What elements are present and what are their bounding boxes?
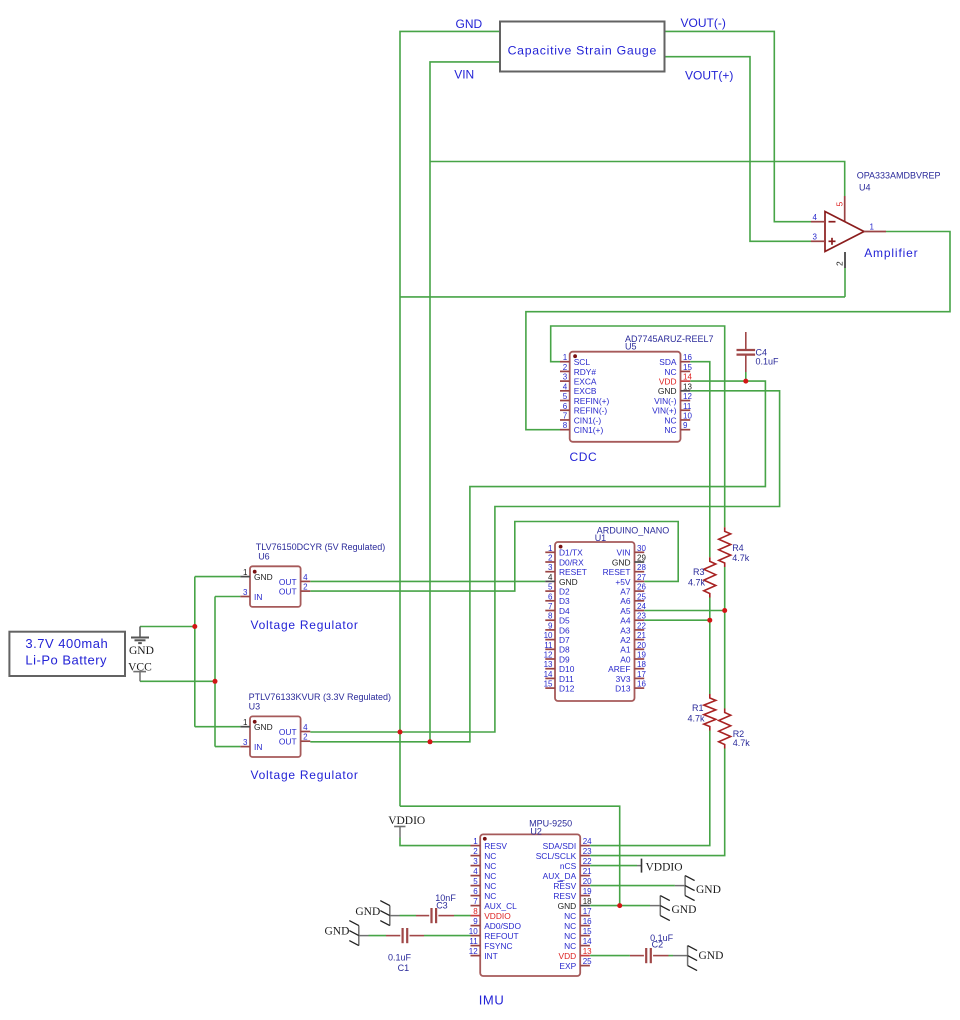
IMU U2 pin 2 NC [471, 855, 481, 857]
svg-text:0.1uF: 0.1uF [756, 356, 780, 366]
svg-text:IMU: IMU [479, 992, 505, 1007]
Arduino U1 pin 12 D9 [545, 658, 555, 660]
svg-text:U6: U6 [258, 551, 270, 561]
svg-text:16: 16 [683, 353, 692, 362]
svg-text:15: 15 [583, 927, 592, 936]
svg-text:U2: U2 [530, 827, 542, 837]
wire SCL to IMU pin23 [590, 749, 725, 856]
wire battery GND rail [140, 626, 195, 628]
CDC U5 pin 12 VIN(-) [681, 400, 691, 402]
svg-text:10: 10 [469, 927, 478, 936]
op-amp plus input marker [829, 240, 836, 242]
svg-text:4: 4 [548, 573, 553, 582]
capacitor C1 leads [386, 935, 400, 937]
Arduino U1 pin 8 D5 [545, 619, 555, 621]
junction U3.OUT4 column [398, 730, 403, 735]
svg-text:15: 15 [683, 363, 692, 372]
svg-text:U4: U4 [859, 182, 871, 192]
svg-text:VIN: VIN [454, 67, 474, 81]
Arduino U1 pin 30 VIN [635, 551, 645, 553]
wire GND from CDC pin13 [310, 391, 779, 732]
svg-text:9: 9 [473, 917, 478, 926]
svg-text:12: 12 [469, 947, 478, 956]
svg-text:4: 4 [303, 573, 308, 582]
svg-text:30: 30 [637, 544, 646, 553]
svg-text:16: 16 [637, 680, 646, 689]
svg-text:27: 27 [637, 573, 646, 582]
svg-text:7: 7 [563, 411, 568, 420]
svg-text:C1: C1 [398, 963, 410, 973]
capacitive strain gauge box [500, 22, 665, 72]
svg-text:11: 11 [544, 641, 553, 650]
svg-text:4: 4 [473, 867, 478, 876]
wire GND gauge-left [400, 31, 500, 806]
svg-text:D11: D11 [559, 674, 574, 684]
svg-text:GND: GND [355, 906, 380, 918]
svg-text:13: 13 [683, 382, 692, 391]
svg-text:EXCB: EXCB [574, 386, 597, 396]
Arduino U1 pin 11 D8 [545, 648, 555, 650]
svg-text:19: 19 [583, 887, 592, 896]
svg-text:9: 9 [548, 621, 553, 630]
ground symbol C2 [687, 946, 689, 966]
svg-text:A3: A3 [620, 625, 631, 635]
svg-text:C2: C2 [652, 940, 664, 950]
Arduino U1 pin 10 D7 [545, 639, 555, 641]
CDC U5 pin 11 VIN(+) [681, 409, 691, 411]
svg-text:RESV: RESV [553, 891, 576, 901]
capacitor C4 leads [745, 332, 747, 350]
svg-text:1: 1 [563, 353, 568, 362]
svg-text:RDY#: RDY# [574, 367, 597, 377]
resistor R2 [719, 709, 731, 749]
svg-text:11: 11 [683, 402, 692, 411]
resistor R1 [704, 694, 716, 731]
svg-text:15: 15 [544, 680, 553, 689]
Arduino pin1 indicator dot [559, 545, 563, 549]
svg-text:D9: D9 [559, 654, 570, 664]
svg-text:REFIN(-): REFIN(-) [574, 406, 608, 416]
wire A5/SCL [644, 610, 725, 612]
Arduino U1 pin 28 RESET [635, 571, 645, 573]
svg-text:AREF: AREF [608, 664, 630, 674]
svg-text:17: 17 [583, 907, 592, 916]
svg-text:GND: GND [254, 722, 273, 732]
svg-text:12: 12 [544, 651, 553, 660]
svg-text:3.7V 400mah: 3.7V 400mah [25, 636, 108, 651]
svg-text:D12: D12 [559, 684, 575, 694]
U3 pin 1 GND [240, 726, 250, 728]
svg-text:U5: U5 [625, 341, 637, 351]
Arduino U1 pin 14 D11 [545, 677, 555, 679]
svg-text:2: 2 [473, 847, 478, 856]
svg-text:GND: GND [696, 884, 721, 896]
svg-text:18: 18 [583, 897, 592, 906]
wire IMU pin20 RESV to GND [590, 885, 675, 887]
IMU U2 pin 16 NC [580, 925, 590, 927]
svg-text:7: 7 [473, 897, 478, 906]
svg-text:CIN1(+): CIN1(+) [574, 425, 604, 435]
svg-text:6: 6 [548, 592, 553, 601]
IMU U2 pin 19 RESV [580, 895, 590, 897]
svg-text:IN: IN [254, 742, 262, 752]
svg-text:NC: NC [484, 871, 496, 881]
svg-text:24: 24 [583, 837, 592, 846]
wire battery VCC rail [140, 680, 215, 682]
Arduino U1 pin 25 A6 [635, 600, 645, 602]
capacitor C2 leads [630, 955, 644, 957]
svg-text:SCL: SCL [574, 357, 591, 367]
svg-text:D4: D4 [559, 606, 570, 616]
capacitor C3 leads [416, 915, 429, 917]
Arduino U1 pin 16 D13 [635, 687, 645, 689]
svg-text:GND: GND [658, 386, 677, 396]
svg-text:10: 10 [683, 411, 692, 420]
svg-text:R4: R4 [732, 543, 744, 553]
Arduino U1 pin 23 A4 [635, 619, 645, 621]
IMU U2 pin 22 nCS [580, 865, 590, 867]
capacitor C3 [430, 908, 432, 923]
CDC pin1 indicator dot [573, 354, 577, 358]
op-amp pin3 stub [811, 240, 825, 242]
svg-text:AD7745ARUZ-REEL7: AD7745ARUZ-REEL7 [625, 334, 714, 344]
wire VOUT(-) to op-amp pin4 [665, 31, 812, 221]
svg-text:AUX_CL: AUX_CL [484, 901, 517, 911]
svg-text:1: 1 [548, 544, 553, 553]
svg-text:2: 2 [303, 583, 308, 592]
Arduino U1 pin 4 GND [545, 580, 555, 582]
wire U6.OUT4 to Arduino pin4 GND [310, 580, 545, 582]
junction A5/SCL [722, 608, 727, 613]
svg-text:RESV: RESV [553, 881, 576, 891]
ground symbol pin18 [659, 896, 661, 916]
svg-text:1: 1 [243, 718, 248, 727]
voltage regulator U6 box [250, 566, 301, 607]
CDC U5 pin 14 VDD [681, 380, 691, 382]
svg-text:VOUT(-): VOUT(-) [681, 16, 726, 30]
U3 pin 3 IN [240, 746, 250, 748]
IMU U2 pin 23 SCL/SCLK [580, 855, 590, 857]
svg-text:NC: NC [484, 851, 496, 861]
svg-text:3: 3 [243, 738, 248, 747]
svg-text:13: 13 [583, 947, 592, 956]
svg-text:D0/RX: D0/RX [559, 557, 584, 567]
svg-text:4: 4 [813, 213, 818, 222]
Arduino U1 pin 26 A7 [635, 590, 645, 592]
junction battery VCC [213, 679, 218, 684]
IMU U2 pin 5 NC [471, 885, 481, 887]
Arduino U1 pin 3 RESET [545, 571, 555, 573]
svg-text:8: 8 [548, 612, 553, 621]
svg-text:R3: R3 [693, 567, 705, 577]
Arduino U1 pin 2 D0/RX [545, 561, 555, 563]
svg-text:Voltage Regulator: Voltage Regulator [251, 618, 359, 632]
svg-text:21: 21 [583, 867, 592, 876]
IMU pin1 indicator dot [483, 837, 487, 841]
svg-text:PTLV76133KVUR (3.3V Regulated): PTLV76133KVUR (3.3V Regulated) [249, 692, 391, 702]
junction A4/SDA [707, 618, 712, 623]
svg-text:D3: D3 [559, 596, 570, 606]
svg-text:29: 29 [637, 554, 646, 563]
svg-text:RESET: RESET [559, 567, 587, 577]
svg-text:A1: A1 [620, 645, 631, 655]
wire op-amp output loop to CDC CIN1(+) [526, 232, 950, 430]
svg-text:CIN1(-): CIN1(-) [574, 415, 602, 425]
svg-text:3: 3 [473, 857, 478, 866]
svg-text:GND: GND [324, 926, 349, 938]
wire VDDIO to IMU pin1 [400, 838, 471, 846]
svg-text:OUT: OUT [279, 727, 297, 737]
svg-text:4: 4 [563, 382, 568, 391]
svg-text:VDDIO: VDDIO [484, 911, 511, 921]
svg-text:5: 5 [563, 392, 568, 401]
IMU U2 pin 15 NC [580, 935, 590, 937]
CDC U5 pin 7 CIN1(-) [560, 419, 570, 421]
junction U3.OUT2 column [428, 739, 433, 744]
wire GND down to IMU pin18 [400, 806, 620, 905]
svg-text:Capacitive Strain Gauge: Capacitive Strain Gauge [508, 44, 657, 58]
CDC U5 pin 1 SCL [560, 361, 570, 363]
wire GND to op-amp pin2 [400, 296, 845, 298]
IMU U2 pin 12 INT [471, 955, 481, 957]
U6 pin 1 GND [240, 576, 250, 578]
svg-text:GND: GND [699, 950, 724, 962]
Arduino U1 pin 6 D3 [545, 600, 555, 602]
svg-text:A5: A5 [620, 606, 631, 616]
svg-text:1: 1 [473, 837, 478, 846]
IMU U2 pin 14 NC [580, 945, 590, 947]
wire IMU pin18 GND [590, 905, 650, 907]
svg-text:24: 24 [637, 602, 646, 611]
svg-text:REFIN(+): REFIN(+) [574, 396, 610, 406]
svg-text:4: 4 [303, 723, 308, 732]
svg-text:13: 13 [544, 660, 553, 669]
CDC U5 box [570, 352, 681, 442]
svg-text:3V3: 3V3 [616, 674, 631, 684]
overline on pin20 RESV E [558, 880, 564, 882]
wire C2 to GND [669, 955, 674, 957]
CDC U5 pin 3 EXCA [560, 380, 570, 382]
IMU U2 pin 9 AD0/SDO [471, 925, 481, 927]
svg-text:23: 23 [583, 847, 592, 856]
svg-text:OUT: OUT [279, 587, 297, 597]
ground symbol battery [139, 627, 141, 638]
op-amp minus input marker [829, 221, 836, 223]
wire SDA from CDC pin16 [690, 362, 710, 558]
CDC U5 pin 5 REFIN(+) [560, 400, 570, 402]
svg-text:5: 5 [548, 583, 553, 592]
svg-text:22: 22 [583, 857, 592, 866]
U6 pin 3 IN [240, 596, 250, 598]
svg-text:VIN: VIN [617, 548, 631, 558]
svg-text:VDD: VDD [659, 377, 677, 387]
IMU U2 pin 3 NC [471, 865, 481, 867]
svg-text:9: 9 [683, 421, 688, 430]
wire GND to C1 [369, 935, 387, 937]
svg-text:nCS: nCS [560, 861, 577, 871]
wire +5V U6.OUT2 to Arduino pin27 [310, 522, 678, 592]
svg-text:U1: U1 [595, 533, 607, 543]
svg-text:1: 1 [870, 222, 875, 231]
IMU U2 pin 7 AUX_CL [471, 905, 481, 907]
svg-text:VDDIO: VDDIO [646, 861, 683, 873]
wire IMU pin13 VDD to C2 [590, 955, 630, 957]
svg-text:7: 7 [548, 602, 553, 611]
svg-text:21: 21 [637, 631, 646, 640]
svg-text:6: 6 [473, 887, 478, 896]
svg-text:NC: NC [484, 861, 496, 871]
IMU U2 pin 11 FSYNC [471, 945, 481, 947]
Arduino U1 pin 15 D12 [545, 687, 555, 689]
svg-text:GND: GND [129, 645, 154, 657]
wire C3 to IMU pin8 [454, 915, 471, 917]
svg-text:14: 14 [583, 937, 592, 946]
svg-text:TLV76150DCYR (5V Regulated): TLV76150DCYR (5V Regulated) [256, 542, 385, 552]
svg-text:GND: GND [254, 572, 273, 582]
svg-text:NC: NC [664, 415, 676, 425]
svg-text:OUT: OUT [279, 737, 297, 747]
junction IMU GND [617, 903, 622, 908]
wire SDA mid [709, 598, 711, 695]
svg-text:U3: U3 [249, 701, 261, 711]
svg-text:INT: INT [484, 951, 498, 961]
IMU U2 box [480, 834, 580, 976]
capacitor C4 [737, 349, 756, 351]
svg-text:2: 2 [303, 733, 308, 742]
svg-text:NC: NC [484, 891, 496, 901]
svg-text:0.1uF: 0.1uF [388, 952, 412, 962]
svg-text:25: 25 [637, 592, 646, 601]
IMU U2 pin 24 SDA/SDI [580, 845, 590, 847]
svg-text:OUT: OUT [279, 577, 297, 587]
svg-text:VIN(+): VIN(+) [652, 406, 677, 416]
CDC U5 pin 10 NC [681, 419, 691, 421]
svg-text:+5V: +5V [615, 577, 631, 587]
Arduino U1 pin 18 AREF [635, 668, 645, 670]
svg-text:NC: NC [484, 881, 496, 891]
IMU U2 pin 18 GND [580, 905, 590, 907]
svg-text:D10: D10 [559, 664, 575, 674]
battery box [9, 632, 125, 676]
VDDIO power symbol right [641, 859, 643, 873]
op-amp U4 triangle [825, 212, 864, 252]
svg-text:IN: IN [254, 592, 262, 602]
svg-text:VDDIO: VDDIO [388, 815, 425, 827]
svg-text:26: 26 [637, 583, 646, 592]
svg-text:4.7k: 4.7k [732, 553, 750, 563]
svg-text:18: 18 [637, 660, 646, 669]
svg-text:NC: NC [664, 425, 676, 435]
svg-text:5: 5 [835, 202, 845, 207]
svg-text:20: 20 [637, 641, 646, 650]
svg-text:NC: NC [664, 367, 676, 377]
svg-text:14: 14 [544, 670, 553, 679]
Arduino U1 pin 19 A0 [635, 658, 645, 660]
junction battery GND [192, 624, 197, 629]
svg-text:6: 6 [563, 402, 568, 411]
Arduino U1 pin 9 D6 [545, 629, 555, 631]
Arduino U1 pin 1 D1/TX [545, 551, 555, 553]
svg-text:GND: GND [558, 901, 577, 911]
svg-text:28: 28 [637, 563, 646, 572]
svg-text:NC: NC [564, 921, 576, 931]
svg-text:1: 1 [243, 568, 248, 577]
svg-text:22: 22 [637, 621, 646, 630]
svg-text:D7: D7 [559, 635, 570, 645]
Arduino U1 pin 20 A1 [635, 648, 645, 650]
svg-text:14: 14 [683, 373, 692, 382]
Arduino U1 pin 5 D2 [545, 590, 555, 592]
Arduino U1 pin 13 D10 [545, 668, 555, 670]
svg-text:A4: A4 [620, 616, 631, 626]
svg-text:19: 19 [637, 651, 646, 660]
svg-text:D5: D5 [559, 616, 570, 626]
svg-text:11: 11 [469, 937, 478, 946]
svg-text:GND: GND [456, 17, 483, 31]
svg-text:NC: NC [564, 911, 576, 921]
svg-text:D1/TX: D1/TX [559, 548, 583, 558]
IMU U2 pin 21 AUX_DA [580, 875, 590, 877]
wire C1 to IMU pin10 [424, 935, 471, 937]
svg-text:8: 8 [563, 421, 568, 430]
voltage regulator U3 box [250, 716, 301, 757]
svg-text:2: 2 [563, 363, 568, 372]
svg-text:EXP: EXP [559, 961, 576, 971]
wire A4/SDA [644, 619, 710, 621]
svg-text:AUX_DA: AUX_DA [543, 871, 577, 881]
wire VOUT(+) to op-amp pin3 [665, 57, 812, 242]
svg-text:VDD: VDD [559, 951, 577, 961]
IMU pin 25 EXP [580, 965, 590, 967]
svg-text:SDA/SDI: SDA/SDI [543, 841, 577, 851]
op-amp pin1 stub [864, 231, 886, 233]
CDC U5 pin 16 SDA [681, 361, 691, 363]
IMU U2 pin 1 RESV [471, 845, 481, 847]
IMU U2 pin 17 NC [580, 915, 590, 917]
svg-text:Amplifier: Amplifier [864, 246, 918, 260]
wire IMU pin22 nCS to VDDIO [590, 865, 637, 867]
svg-text:NC: NC [564, 931, 576, 941]
wire SCL mid [724, 567, 726, 709]
U3 pin 2 OUT [301, 740, 311, 742]
op-amp pin4 stub [811, 221, 825, 223]
svg-text:8: 8 [473, 907, 478, 916]
wire VDD from CDC pin14 [310, 381, 765, 742]
svg-text:2: 2 [835, 261, 845, 266]
svg-text:Li-Po Battery: Li-Po Battery [25, 653, 107, 668]
CDC U5 pin 6 REFIN(-) [560, 409, 570, 411]
svg-text:GND: GND [559, 577, 578, 587]
svg-text:REFOUT: REFOUT [484, 931, 518, 941]
resistor R4 [719, 527, 731, 567]
Arduino U1 pin 27 +5V [635, 580, 645, 582]
ground symbol C3 [389, 906, 391, 926]
svg-text:VIN(-): VIN(-) [654, 396, 677, 406]
Arduino U1 pin 22 A3 [635, 629, 645, 631]
resistor R3 [704, 557, 716, 597]
Arduino U1 pin 24 A5 [635, 610, 645, 612]
Arduino U1 pin 7 D4 [545, 610, 555, 612]
IMU U2 pin 8 VDDIO [471, 915, 481, 917]
svg-text:NC: NC [564, 941, 576, 951]
ground symbol pin20 [684, 876, 686, 896]
svg-text:2: 2 [548, 554, 553, 563]
svg-text:SDA: SDA [659, 357, 677, 367]
CDC U5 pin 8 CIN1(+) [560, 429, 570, 431]
svg-text:CDC: CDC [570, 450, 598, 464]
svg-text:FSYNC: FSYNC [484, 941, 512, 951]
svg-text:D8: D8 [559, 645, 570, 655]
